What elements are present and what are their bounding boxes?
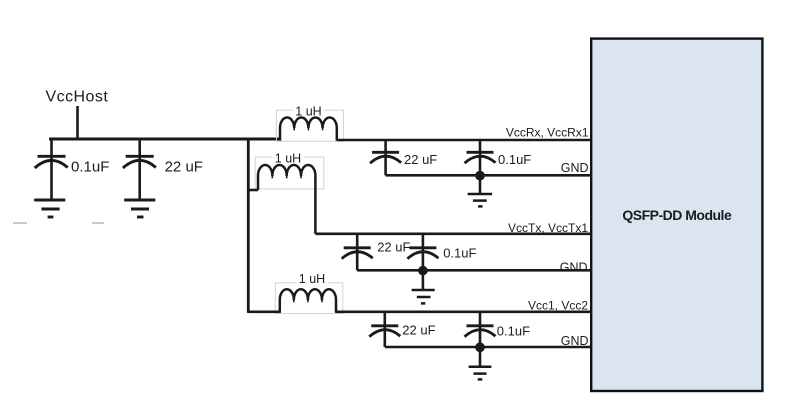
capacitor C8 bottom lead <box>479 327 482 348</box>
svg-text:GND: GND <box>560 261 588 275</box>
capacitor C7 22uF (branch3) top lead <box>383 312 386 326</box>
inductor L2 cusp ticks <box>272 176 301 178</box>
ground branch3 lead <box>479 347 482 366</box>
label QSFP-DD Module <box>622 207 732 223</box>
svg-text:VccTx, VccTx1: VccTx, VccTx1 <box>508 221 588 235</box>
junction dot branch2 <box>418 266 428 276</box>
capacitor C8 0.1uF (branch3) top lead <box>479 312 482 326</box>
wire GND rail branch1 <box>386 174 592 177</box>
label 22 uF for C2 <box>165 159 203 176</box>
ground branch3 bars <box>469 367 492 380</box>
inductor L2 body <box>258 165 315 234</box>
inductor L1 cusp ticks <box>294 128 322 130</box>
capacitor C1 0.1uF (host bypass) top lead <box>50 139 53 156</box>
svg-text:22 uF: 22 uF <box>404 152 437 167</box>
wire Vcc1 rail <box>336 310 592 313</box>
svg-text:0.1uF: 0.1uF <box>443 245 476 260</box>
svg-text:VccRx, VccRx1: VccRx, VccRx1 <box>506 125 589 139</box>
svg-text:1 uH: 1 uH <box>299 272 325 286</box>
capacitor C4 plates <box>465 152 496 163</box>
ground branch1 lead <box>479 176 482 194</box>
wire L3 input segment <box>248 310 279 313</box>
svg-text:0.1uF: 0.1uF <box>498 152 531 167</box>
inductor L1 callout box <box>276 110 343 141</box>
label 1 uH for L1 <box>293 105 324 119</box>
wire GND rail branch2 <box>357 269 591 272</box>
label 0.1uF for C8 <box>497 324 530 339</box>
capacitor C2 22uF (host bulk) top lead <box>138 139 141 156</box>
svg-text:22 uF: 22 uF <box>377 239 410 254</box>
label 0.1uF for C6 <box>443 245 476 260</box>
svg-text:1 uH: 1 uH <box>275 152 301 166</box>
junction dot branch3 <box>475 342 485 352</box>
ground branch2 lead <box>422 271 425 290</box>
inductor L2 callout box <box>255 157 324 189</box>
wire VccRx rail <box>337 139 592 142</box>
wire GND rail branch3 <box>385 346 592 349</box>
ground for C2 <box>124 200 155 217</box>
capacitor C1 bottom lead <box>50 157 53 199</box>
capacitor C4 bottom lead <box>479 153 482 175</box>
label pin GND branch1 <box>561 161 589 175</box>
svg-text:1 uH: 1 uH <box>295 105 321 119</box>
capacitor C5 bottom lead <box>356 249 359 271</box>
capacitor C7 plates <box>369 326 400 337</box>
junction dot branch1 <box>475 171 485 181</box>
svg-text:0.1uF: 0.1uF <box>71 159 109 176</box>
node VccHost label <box>46 89 109 106</box>
svg-text:QSFP-DD Module: QSFP-DD Module <box>622 207 732 223</box>
label 1 uH for L2 <box>273 152 304 166</box>
inductor L3 cusp ticks <box>294 300 322 302</box>
capacitor C2 bottom lead <box>138 157 141 199</box>
svg-text:GND: GND <box>561 161 589 175</box>
svg-text:0.1uF: 0.1uF <box>497 324 530 339</box>
svg-text:VccHost: VccHost <box>46 89 109 106</box>
capacitor C7 bottom lead <box>383 327 386 348</box>
capacitor C6 plates <box>407 248 438 259</box>
capacitor C3 22uF (branch1) top lead <box>384 140 387 152</box>
wire L2 input jog <box>248 189 258 192</box>
capacitor C1 plates <box>35 156 68 168</box>
wire main Vcc rail <box>49 138 280 141</box>
label pin Vcc1, Vcc2 <box>528 298 588 312</box>
ground branch2 bars <box>412 290 435 303</box>
inductor L3 callout box <box>275 283 343 314</box>
ground branch1 bars <box>468 194 493 206</box>
wire VccHost tap <box>76 106 79 139</box>
capacitor C6 bottom lead <box>422 249 425 271</box>
label pin VccTx, VccTx1 <box>508 221 588 235</box>
svg-text:Vcc1, Vcc2: Vcc1, Vcc2 <box>528 298 588 312</box>
capacitor C5 plates <box>342 248 373 259</box>
label pin GND branch3 <box>561 334 589 348</box>
capacitor C2 plates <box>123 156 156 168</box>
svg-text:22 uF: 22 uF <box>165 159 203 176</box>
stray faint mark left <box>13 222 27 224</box>
label pin VccRx, VccRx1 <box>506 125 589 139</box>
ground for C1 <box>34 200 65 217</box>
capacitor C8 plates <box>465 326 496 337</box>
capacitor C4 0.1uF (branch1) top lead <box>479 140 482 152</box>
svg-text:GND: GND <box>561 334 589 348</box>
capacitor C3 plates <box>370 152 401 163</box>
label 22 uF for C7 <box>402 323 435 338</box>
module QSFP-DD box <box>591 39 762 391</box>
capacitor C3 bottom lead <box>384 153 387 175</box>
stray faint mark right <box>92 222 104 224</box>
label 1 uH for L3 <box>297 272 328 286</box>
capacitor C6 0.1uF (branch2) top lead <box>422 234 425 248</box>
wire branch vertical bus <box>247 138 250 313</box>
label 22 uF for C3 <box>404 152 437 167</box>
capacitor C5 22uF (branch2) top lead <box>356 234 359 248</box>
inductor L3 body <box>280 289 336 313</box>
label pin GND branch2 <box>560 261 588 275</box>
wire VccTx rail <box>315 233 591 236</box>
inductor L1 body <box>280 117 337 140</box>
label 22 uF for C5 <box>377 239 410 254</box>
label 0.1uF for C4 <box>498 152 531 167</box>
label 0.1uF for C1 <box>71 159 109 176</box>
svg-text:22 uF: 22 uF <box>402 323 435 338</box>
